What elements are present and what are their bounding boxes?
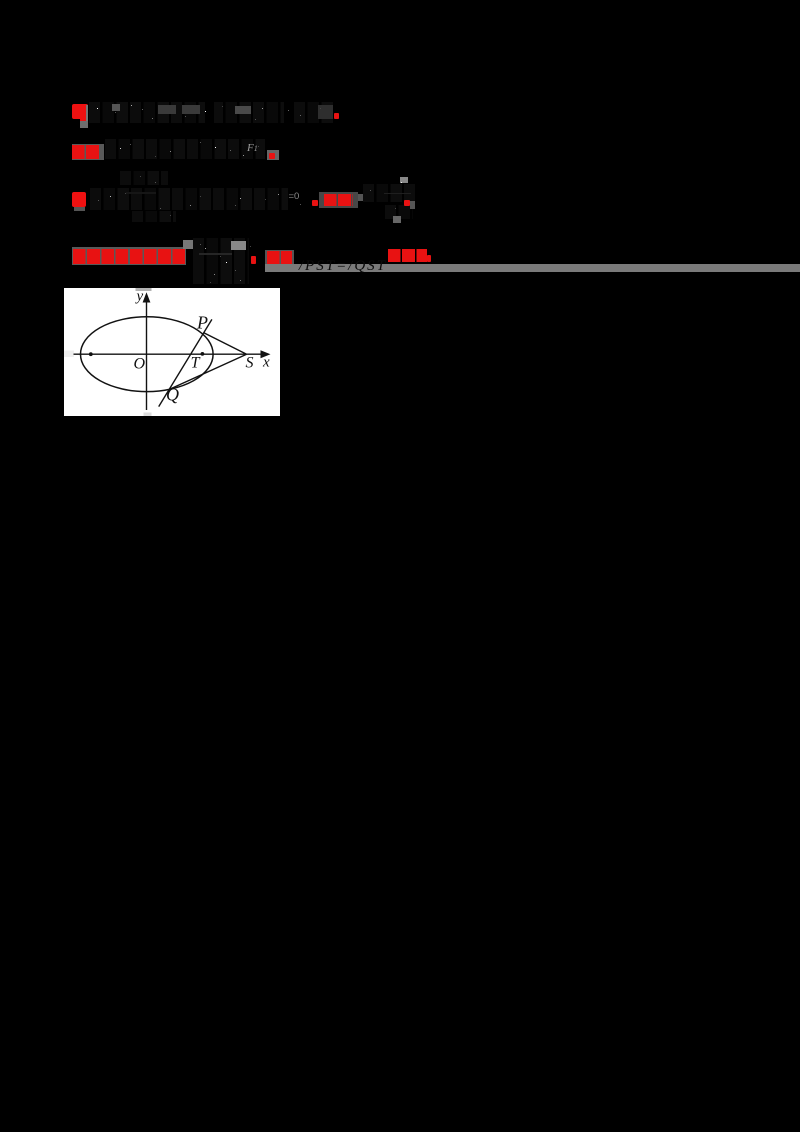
grey highlight + red chars line3: [319, 192, 358, 208]
svg-text:O: O: [134, 355, 146, 372]
dark math run line3 lower: [132, 211, 176, 222]
svg-text:S: S: [246, 355, 254, 372]
right focus dot T: [201, 352, 205, 356]
grey crop mark top: [136, 288, 152, 291]
grey =0 line3: [289, 191, 300, 202]
dark text run line1: [89, 102, 333, 123]
svg-text:x: x: [262, 355, 270, 371]
black gaps in line1 run: [205, 101, 214, 123]
grey tail block under icon: [80, 121, 88, 128]
red bubble icon line3: [72, 192, 86, 207]
light glyph F line2: [247, 142, 258, 154]
faint left smudge of x-axis: [64, 351, 74, 358]
dark math run line3 right: [363, 184, 415, 202]
red bold chars line2: [72, 145, 100, 160]
red period line3 right: [404, 200, 410, 206]
svg-text:y: y: [135, 289, 144, 305]
red 3 chars + comma line4 right: [388, 249, 427, 262]
dark math run line3 upper: [120, 171, 168, 185]
svg-text:Q: Q: [166, 385, 179, 405]
grey strip right edge of icon: [86, 105, 88, 122]
grey highlight block line4 start: [72, 247, 187, 265]
x-axis arrowhead: [261, 350, 271, 358]
red 2 chars line4 mid: [267, 251, 292, 265]
red comma line4: [251, 256, 256, 263]
white speckles over dark text: [0, 0, 1, 1]
grey highlight block line2 start: [72, 144, 105, 160]
grey crop mark bottom: [144, 413, 152, 417]
svg-text:P: P: [196, 313, 208, 333]
red period line3: [312, 200, 318, 206]
red bold chars line4 (8 chars): [73, 249, 185, 264]
chord line PQ: [159, 319, 212, 406]
fraction bar line4: [199, 253, 232, 255]
line S-Q: [169, 354, 246, 389]
grey patches line1: [112, 104, 120, 111]
fraction bar right line3: [384, 193, 411, 194]
ellipse: [81, 317, 214, 392]
long grey band to right edge: [265, 264, 800, 272]
red comma line1: [334, 113, 339, 119]
x-axis: [74, 353, 264, 355]
grey patch + red comma line2 end: [267, 150, 279, 160]
grey block above right fraction: [400, 177, 408, 183]
left focus dot: [89, 352, 93, 356]
dark math angle PST = QST on band: [299, 258, 385, 275]
dark math run line3 main: [90, 188, 288, 210]
svg-text:T: T: [191, 355, 201, 372]
faint fraction bar line3: [126, 192, 156, 193]
grey block under 2 red chars: [265, 250, 294, 265]
dark text run line2: [105, 139, 265, 159]
y-axis: [146, 300, 148, 410]
y-axis arrowhead: [143, 292, 151, 302]
grey patches line4 fraction: [183, 240, 193, 249]
red bubble icon line1: [72, 104, 87, 119]
line S-P: [204, 333, 247, 355]
dark fraction run line4: [193, 238, 249, 284]
